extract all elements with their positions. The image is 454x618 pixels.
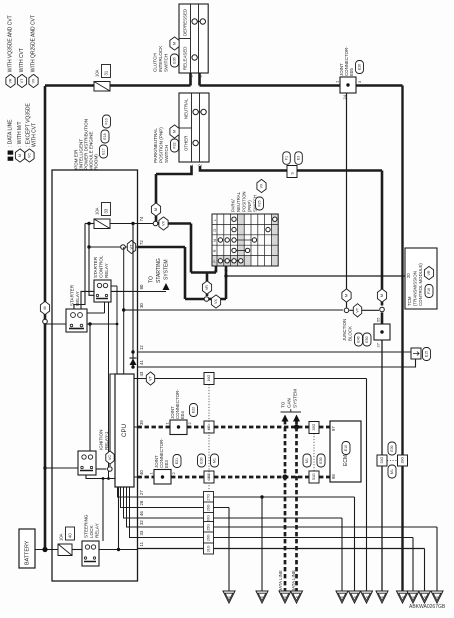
svg-text:E30: E30 bbox=[319, 457, 323, 463]
svg-text:55: 55 bbox=[376, 317, 381, 322]
svg-text:46: 46 bbox=[139, 511, 144, 516]
svg-text:E30: E30 bbox=[200, 457, 204, 463]
svg-text:: WITH VQ35DE AND CVT: : WITH VQ35DE AND CVT bbox=[8, 15, 14, 75]
svg-text:51G: 51G bbox=[312, 473, 316, 480]
svg-text:VC: VC bbox=[108, 455, 112, 461]
svg-text:E: E bbox=[381, 596, 385, 598]
svg-text:E: E bbox=[261, 596, 265, 598]
svg-text:VT: VT bbox=[20, 78, 24, 83]
svg-text:E15: E15 bbox=[425, 351, 429, 357]
svg-text:20G: 20G bbox=[207, 515, 211, 522]
svg-text:12: 12 bbox=[139, 345, 144, 350]
svg-text:CPU: CPU bbox=[121, 424, 128, 437]
svg-text:IGNITION: IGNITION bbox=[99, 430, 104, 450]
svg-text:: WITH CVT: : WITH CVT bbox=[19, 48, 25, 75]
svg-text:BLOCK: BLOCK bbox=[348, 326, 353, 341]
svg-text:E30: E30 bbox=[390, 445, 394, 451]
svg-text:74: 74 bbox=[139, 216, 144, 221]
svg-text:E: E bbox=[436, 596, 440, 598]
svg-text:11: 11 bbox=[139, 541, 144, 546]
svg-text:97: 97 bbox=[331, 426, 336, 431]
svg-text:27: 27 bbox=[139, 490, 144, 495]
svg-text:RELAY: RELAY bbox=[95, 523, 100, 538]
svg-text:35G: 35G bbox=[312, 424, 316, 431]
svg-text:28G: 28G bbox=[401, 457, 405, 464]
svg-text:ROOM): ROOM) bbox=[94, 154, 99, 170]
svg-text:E05: E05 bbox=[349, 68, 354, 76]
svg-text:PARK/NEUTRAL: PARK/NEUTRAL bbox=[153, 128, 158, 163]
svg-text:SYSTEM: SYSTEM bbox=[293, 389, 298, 408]
svg-text:(TRANSMISSION: (TRANSMISSION bbox=[413, 271, 418, 306]
svg-text:40: 40 bbox=[68, 533, 73, 538]
svg-text:F25: F25 bbox=[258, 200, 262, 206]
svg-text:33: 33 bbox=[104, 208, 109, 213]
svg-text:M: M bbox=[18, 154, 22, 157]
svg-text:10A: 10A bbox=[95, 69, 100, 77]
svg-text:LOCK: LOCK bbox=[89, 525, 94, 538]
svg-text:15G: 15G bbox=[207, 473, 211, 480]
svg-text:43: 43 bbox=[139, 371, 144, 376]
svg-text:E3: E3 bbox=[297, 156, 301, 160]
svg-text:F1: F1 bbox=[285, 156, 289, 160]
svg-text:6G: 6G bbox=[207, 425, 211, 430]
svg-text:: DATA LINE: : DATA LINE bbox=[8, 119, 14, 147]
svg-text:D: D bbox=[212, 229, 217, 232]
svg-text:RELAY: RELAY bbox=[104, 263, 109, 278]
svg-text:E22: E22 bbox=[192, 407, 196, 413]
svg-text:DATA LINE: DATA LINE bbox=[291, 570, 296, 592]
svg-text:NEUTRAL: NEUTRAL bbox=[236, 191, 241, 212]
svg-text:E: E bbox=[366, 596, 370, 598]
svg-text:CONTROL: CONTROL bbox=[99, 255, 104, 278]
svg-text:SWITCH: SWITCH bbox=[164, 54, 169, 72]
svg-text:WITH CVT: WITH CVT bbox=[32, 123, 38, 147]
svg-text:40: 40 bbox=[139, 470, 144, 475]
svg-text:SYSTEM: SYSTEM bbox=[164, 259, 170, 280]
svg-text:VX: VX bbox=[260, 183, 264, 188]
svg-text:E: E bbox=[296, 596, 300, 598]
svg-text:33G: 33G bbox=[380, 457, 384, 464]
svg-text:E: E bbox=[424, 596, 428, 598]
svg-text:POSITION: POSITION bbox=[242, 191, 247, 212]
svg-text:24: 24 bbox=[342, 94, 347, 99]
svg-text:31G: 31G bbox=[207, 545, 211, 552]
svg-text:VT: VT bbox=[149, 375, 153, 381]
svg-text:INTERLOCK: INTERLOCK bbox=[158, 45, 163, 72]
svg-text:VR: VR bbox=[9, 78, 13, 83]
svg-text:31: 31 bbox=[104, 70, 109, 75]
svg-text:CONTROL MODULE): CONTROL MODULE) bbox=[418, 263, 423, 306]
svg-text:27G: 27G bbox=[207, 494, 211, 501]
svg-text:RELEASED: RELEASED bbox=[183, 47, 188, 70]
svg-text:DEPRESSED: DEPRESSED bbox=[183, 9, 188, 36]
svg-text:OTHER: OTHER bbox=[184, 136, 189, 151]
svg-text:E18: E18 bbox=[103, 133, 107, 139]
svg-text:32: 32 bbox=[139, 520, 144, 525]
svg-text:F16: F16 bbox=[427, 288, 431, 294]
svg-text:VR: VR bbox=[427, 270, 431, 275]
svg-text:P: P bbox=[212, 260, 217, 263]
svg-text:E26: E26 bbox=[358, 64, 362, 70]
svg-text:TO: TO bbox=[149, 276, 155, 283]
svg-text:10A: 10A bbox=[95, 207, 100, 215]
svg-text:R: R bbox=[212, 249, 217, 252]
svg-text:STEERING: STEERING bbox=[84, 514, 89, 538]
svg-text:26G: 26G bbox=[207, 534, 211, 541]
svg-text:VX: VX bbox=[162, 221, 166, 226]
svg-text:E: E bbox=[354, 596, 358, 598]
svg-text:E21: E21 bbox=[175, 458, 179, 464]
svg-text:10A: 10A bbox=[59, 533, 64, 541]
svg-text:20: 20 bbox=[406, 273, 411, 278]
svg-text:39: 39 bbox=[139, 420, 144, 425]
svg-text:RELAY-1: RELAY-1 bbox=[104, 431, 109, 450]
svg-text:25G: 25G bbox=[207, 524, 211, 531]
svg-text:CAN: CAN bbox=[287, 398, 292, 408]
svg-text:ECM: ECM bbox=[343, 455, 349, 466]
svg-text:M1: M1 bbox=[390, 469, 394, 474]
svg-text:: WITH QR25DE AND CVT: : WITH QR25DE AND CVT bbox=[31, 15, 37, 75]
svg-text:33: 33 bbox=[139, 530, 144, 535]
svg-text:E03: E03 bbox=[164, 460, 169, 468]
svg-text:E: E bbox=[402, 596, 406, 598]
svg-text:E10: E10 bbox=[344, 445, 348, 451]
svg-text:POSITION (PNP): POSITION (PNP) bbox=[159, 127, 164, 163]
svg-text:M: M bbox=[154, 208, 158, 211]
svg-text:M: M bbox=[173, 42, 177, 45]
svg-text:RELAY: RELAY bbox=[75, 291, 80, 306]
svg-text:E: E bbox=[228, 596, 232, 598]
svg-text:16G: 16G bbox=[207, 375, 211, 382]
svg-text:M: M bbox=[173, 130, 177, 133]
svg-text:41: 41 bbox=[139, 360, 144, 365]
svg-text:M: M bbox=[345, 294, 349, 297]
svg-text:(PNP): (PNP) bbox=[247, 200, 252, 212]
svg-text:27: 27 bbox=[376, 342, 381, 347]
svg-text:M1: M1 bbox=[213, 458, 217, 463]
svg-text:98: 98 bbox=[331, 474, 336, 479]
svg-text:30: 30 bbox=[139, 303, 144, 308]
svg-text:JUNCTION: JUNCTION bbox=[342, 319, 347, 341]
svg-text:ABKWA0267GB: ABKWA0267GB bbox=[409, 604, 446, 610]
svg-text:E: E bbox=[341, 596, 345, 598]
svg-text:72: 72 bbox=[139, 240, 144, 245]
svg-text:F32: F32 bbox=[173, 142, 177, 148]
svg-text:M1: M1 bbox=[305, 458, 309, 463]
svg-text:E36: E36 bbox=[173, 57, 177, 63]
svg-text:E50: E50 bbox=[365, 336, 369, 342]
svg-text:E46: E46 bbox=[357, 336, 361, 342]
svg-text:E17: E17 bbox=[102, 148, 106, 154]
svg-text:CLUTCH: CLUTCH bbox=[153, 53, 158, 72]
svg-text:VR: VR bbox=[205, 285, 209, 290]
svg-text:: WITH M/T: : WITH M/T bbox=[17, 121, 23, 147]
svg-text:SWITCH: SWITCH bbox=[164, 145, 169, 163]
svg-text:STARTER: STARTER bbox=[93, 256, 98, 278]
svg-text:VX: VX bbox=[32, 78, 36, 83]
svg-text:M: M bbox=[380, 294, 384, 297]
svg-text:BATTERY: BATTERY bbox=[25, 540, 31, 565]
svg-text:DATA LINE: DATA LINE bbox=[278, 570, 283, 592]
svg-text:E04: E04 bbox=[180, 411, 185, 419]
svg-text:VX: VX bbox=[214, 299, 218, 304]
svg-text:STARTER: STARTER bbox=[70, 284, 75, 306]
svg-text:80: 80 bbox=[139, 284, 144, 289]
svg-text:F10: F10 bbox=[105, 118, 109, 124]
svg-text:26G: 26G bbox=[207, 504, 211, 511]
svg-text:E: E bbox=[284, 596, 288, 598]
svg-text:M: M bbox=[43, 307, 47, 310]
svg-text:N: N bbox=[212, 239, 217, 242]
svg-text:TCM: TCM bbox=[407, 296, 412, 306]
svg-text:28: 28 bbox=[139, 500, 144, 505]
svg-text:TO: TO bbox=[281, 401, 286, 408]
svg-text:STARTING: STARTING bbox=[156, 258, 162, 283]
svg-text:VT: VT bbox=[356, 307, 360, 313]
svg-text:E: E bbox=[412, 596, 416, 598]
svg-text:PARK/: PARK/ bbox=[231, 199, 236, 212]
svg-text:NEUTRAL: NEUTRAL bbox=[184, 98, 189, 119]
svg-text:VC: VC bbox=[28, 153, 32, 158]
